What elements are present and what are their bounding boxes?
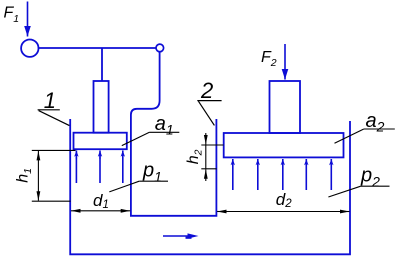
force arrow F2 [284, 44, 286, 80]
right piston 2 [224, 133, 344, 157]
svg-text:2: 2 [200, 78, 213, 103]
link from lever to piston rod [101, 48, 103, 81]
dimension d2 [217, 211, 349, 213]
label 2 with leader [197, 78, 221, 125]
right piston rod [270, 81, 301, 133]
svg-text:d1: d1 [93, 191, 109, 211]
label a1 with leader [122, 113, 180, 146]
label 1 with leader [38, 88, 70, 126]
pivot small circle [156, 44, 164, 52]
lever handle knob circle [21, 40, 38, 57]
svg-text:F2: F2 [261, 49, 277, 69]
svg-text:h1: h1 [15, 168, 34, 183]
svg-text:a2: a2 [366, 110, 385, 135]
svg-text:h2: h2 [185, 149, 204, 164]
flow arrow in channel [163, 233, 199, 238]
dimension h1 [32, 150, 76, 201]
pressure arrows under piston 2 [233, 159, 331, 190]
svg-text:F1: F1 [4, 5, 20, 25]
svg-text:d2: d2 [276, 190, 292, 210]
dimension h2 [201, 133, 223, 181]
pressure arrows under piston 1 [76, 151, 122, 184]
force arrow F1 [27, 2, 29, 37]
dimension d1 [71, 210, 130, 212]
label p2 with leader [328, 165, 389, 197]
vessel outer walls and bottom [70, 119, 350, 254]
left piston rod [94, 81, 109, 133]
lever arm [39, 47, 156, 49]
svg-text:a1: a1 [155, 113, 174, 138]
label p1 with leader [109, 160, 168, 192]
left piston 1 [74, 133, 127, 150]
svg-text:1: 1 [44, 88, 56, 113]
label a2 with leader [335, 110, 395, 143]
inner wall: pivot post, S-bend, left cylinder right wall, channel top, right cylinder left wall [131, 52, 217, 216]
